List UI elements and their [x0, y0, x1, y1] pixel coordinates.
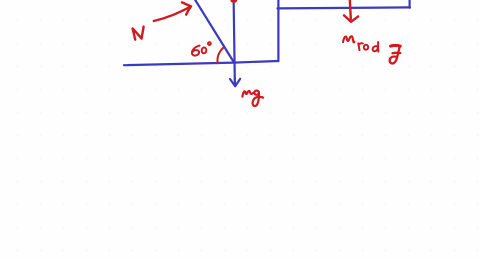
label mg : letter m [242, 91, 254, 97]
right vertical line [277, 0, 279, 61]
rod top horizontal line [278, 6, 411, 9]
normal force arrow N [154, 2, 191, 21]
weight arrow mg (blue) [230, 78, 240, 86]
label N [133, 27, 144, 40]
angle label 60 degrees [192, 46, 200, 56]
rod weight arrow (red, pointing down from rod) [344, 0, 358, 22]
angle arc [217, 48, 223, 64]
incline line [194, 0, 234, 63]
label mg : script g [253, 91, 263, 106]
rod right end vertical [409, 0, 411, 8]
ground line [124, 61, 278, 65]
label m_rod g : subscript rod [358, 43, 363, 50]
red arrowhead at top of rod line [230, 0, 237, 3]
rod vertical line at block [234, 0, 235, 80]
label m_rod g : letter m [343, 36, 354, 42]
label m_rod g : script g [391, 44, 401, 48]
